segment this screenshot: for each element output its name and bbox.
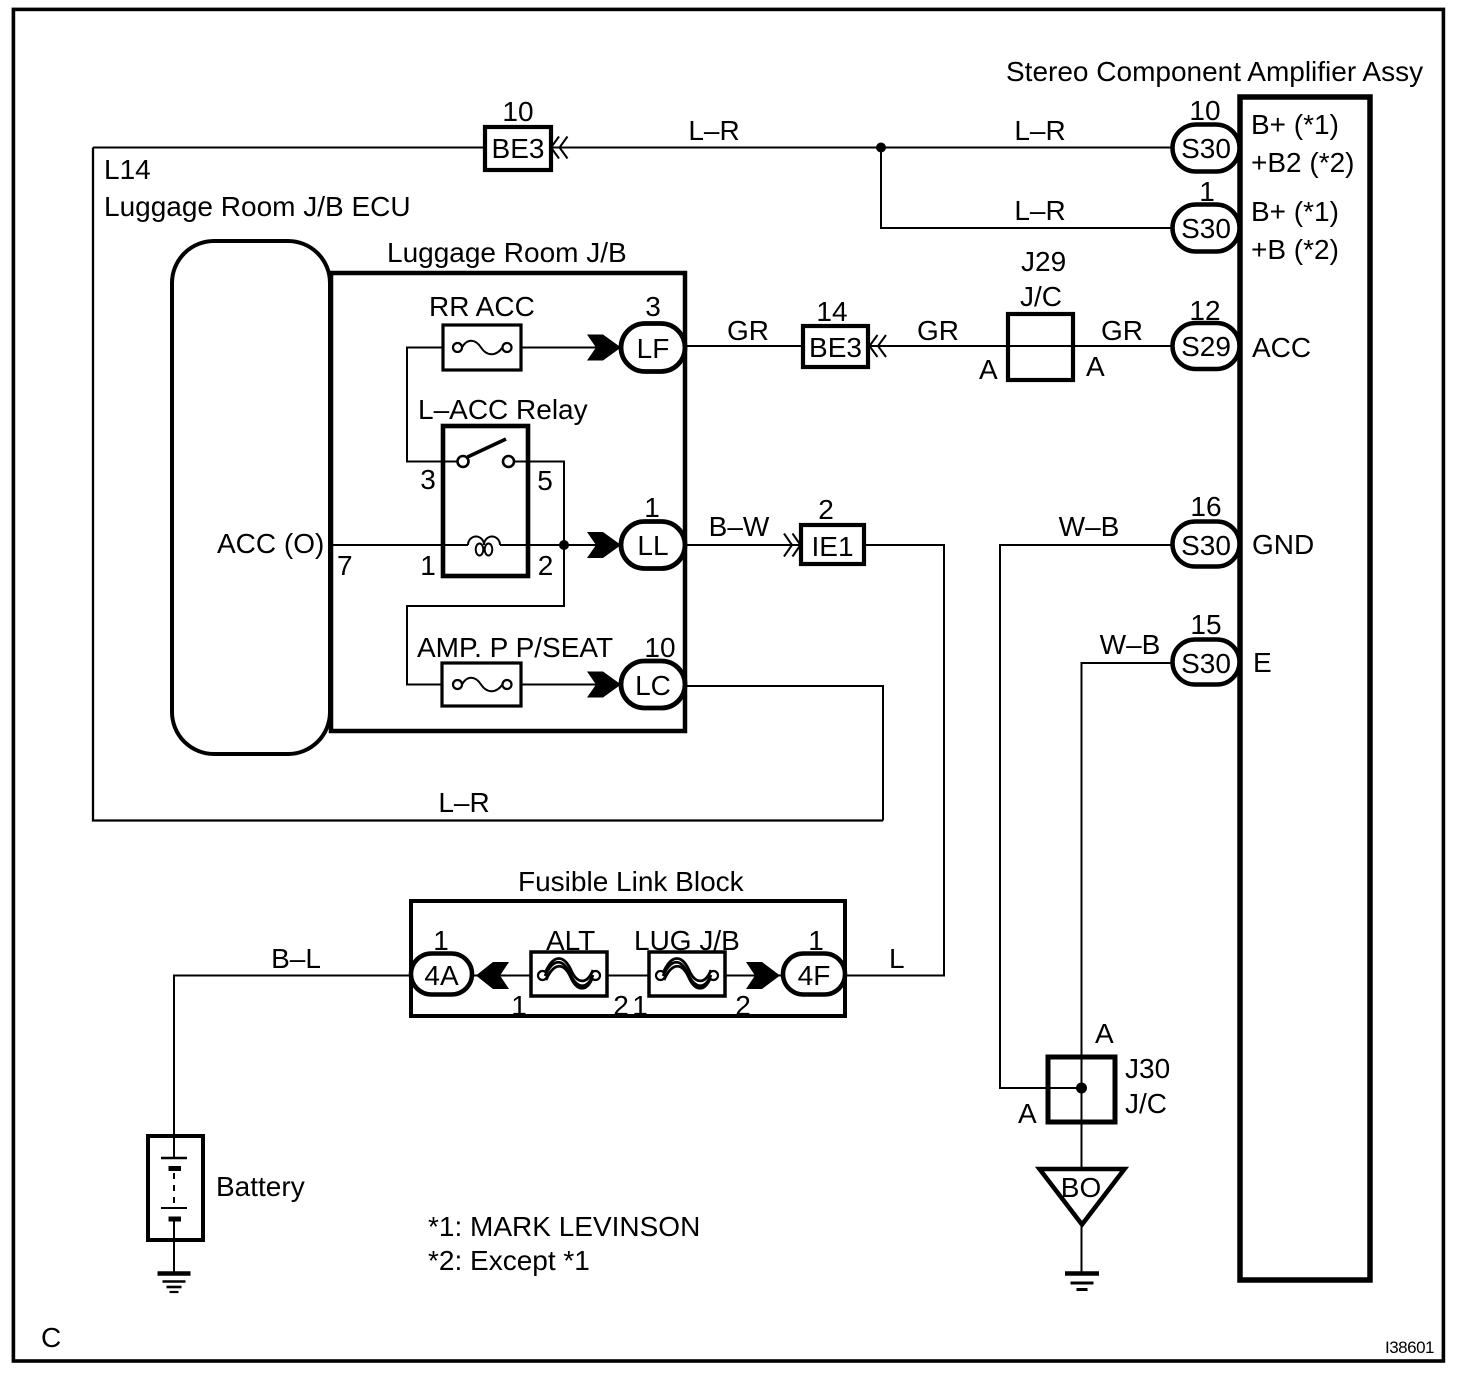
svg-text:1: 1 [1199,176,1215,207]
svg-text:ALT: ALT [546,925,595,956]
svg-text:A: A [1095,1018,1114,1049]
svg-text:B+ (*1): B+ (*1) [1251,196,1339,227]
wire: junction down then right to S30 1 [881,148,1173,229]
wire W-B: S30 16 left and down to J30 [1000,545,1173,1088]
svg-text:15: 15 [1190,609,1221,640]
svg-text:LUG J/B: LUG J/B [634,925,740,956]
wire: LL to IE1 [685,544,801,546]
connector 4A pin 1 [411,954,472,995]
connector 4F pin 1 [783,954,845,995]
wire: RR ACC fuse input drop to relay pin 3 [407,348,458,462]
wire B-L: battery to fusible link block [174,976,411,1137]
wire: RR ACC fuse to LF [521,347,621,349]
svg-text:LC: LC [635,670,671,701]
svg-text:L14: L14 [104,154,151,185]
svg-text:*2: Except *1: *2: Except *1 [428,1245,590,1276]
svg-text:L–R: L–R [1014,195,1065,226]
svg-text:ACC (O): ACC (O) [217,528,324,559]
wire: BO to ground [1081,1224,1083,1272]
junction connector J29 J/C [1008,314,1073,380]
fusible link ALT [531,952,607,996]
ground symbol left [158,1274,191,1293]
fusible link LUG J/B [649,952,725,996]
svg-text:Stereo Component Amplifier Ass: Stereo Component Amplifier Assy [1006,56,1423,87]
svg-text:10: 10 [644,632,675,663]
wire: AMP fuse to LC [521,684,621,686]
svg-text:10: 10 [502,96,533,127]
wire: relay pin 5 down and across to AMP fuse [407,462,564,685]
svg-text:Luggage Room J/B: Luggage Room J/B [387,237,627,268]
svg-text:BE3: BE3 [492,133,545,164]
svg-text:LL: LL [637,530,668,561]
arrow into LC [587,672,621,698]
svg-text:+B2 (*2): +B2 (*2) [1251,147,1355,178]
connector S30 pin 10 [1173,125,1240,172]
svg-text:2: 2 [538,550,554,581]
svg-text:3: 3 [420,464,436,495]
connector IE1 pin 2 [784,525,864,564]
junction connector J30 J/C [1048,1057,1115,1122]
svg-text:B+ (*1): B+ (*1) [1251,109,1339,140]
svg-text:5: 5 [537,465,553,496]
svg-text:1: 1 [433,925,449,956]
svg-text:Battery: Battery [216,1171,305,1202]
svg-text:GR: GR [727,315,769,346]
svg-text:J30: J30 [1125,1053,1170,1084]
svg-text:L–ACC Relay: L–ACC Relay [418,394,588,425]
svg-text:LF: LF [637,333,670,364]
svg-text:Luggage Room J/B ECU: Luggage Room J/B ECU [104,191,411,222]
svg-text:BE3: BE3 [809,332,862,363]
wire: inside fusible link block row [442,975,845,977]
svg-text:W–B: W–B [1100,629,1161,660]
svg-text:A: A [979,354,998,385]
svg-text:3: 3 [645,291,661,322]
svg-text:1: 1 [644,492,660,523]
component box Luggage Room J/B [331,273,685,731]
svg-text:S30: S30 [1181,133,1231,164]
svg-text:7: 7 [337,550,353,581]
svg-text:S29: S29 [1181,331,1231,362]
connector LF pin 3 [621,324,685,372]
component ACC (O) rounded box [172,241,330,754]
svg-text:4A: 4A [424,960,459,991]
wire: relay coil pin 2 to LL [500,544,621,546]
svg-text:S30: S30 [1181,530,1231,561]
node: junction dot on L-R wire [876,143,886,153]
relay L-ACC Relay [443,426,528,576]
svg-text:J29: J29 [1021,246,1066,277]
svg-text:IE1: IE1 [811,531,853,562]
svg-text:RR ACC: RR ACC [429,291,535,322]
wire: J30 to BO ground connector [1081,1122,1083,1169]
svg-text:GND: GND [1252,529,1314,560]
connector S30 pin 1 [1173,205,1240,252]
component box L14 Luggage Room J/B ECU [93,148,883,821]
fuse RR ACC [443,325,521,370]
svg-text:S30: S30 [1181,213,1231,244]
connector S30 pin 15 [1173,640,1240,685]
arrow out of 4A (left pointing) [476,962,509,989]
svg-text:L–R: L–R [688,115,739,146]
svg-text:GR: GR [917,315,959,346]
svg-text:I38601: I38601 [1385,1338,1434,1357]
relay coil [468,537,500,556]
connector LC pin 10 [621,661,685,708]
wire L-R: L14 top edge from (93,147) through BE3 10 to S30 10 [93,147,1173,149]
svg-text:1: 1 [808,925,824,956]
svg-text:1: 1 [420,550,436,581]
svg-text:2: 2 [818,494,834,525]
ground connector BO triangle [1040,1169,1125,1225]
wire GR: LF to S29 through BE3 14 and J29 [685,345,1173,347]
battery [148,1136,203,1272]
arrow into LF [587,335,621,361]
connector S29 pin 12 [1173,323,1240,369]
component: Stereo Component Amplifier Assy box [1240,97,1370,1280]
svg-text:4F: 4F [798,960,831,991]
arrow into LL [587,532,621,558]
svg-text:*1: MARK LEVINSON: *1: MARK LEVINSON [428,1211,700,1242]
svg-text:10: 10 [1189,95,1220,126]
svg-text:S30: S30 [1181,648,1231,679]
svg-text:B–L: B–L [271,943,321,974]
ground symbol right [1065,1274,1099,1290]
svg-text:ACC: ACC [1252,332,1311,363]
svg-text:2: 2 [613,990,629,1021]
svg-text:GR: GR [1101,315,1143,346]
svg-text:E: E [1253,647,1272,678]
svg-text:14: 14 [816,296,847,327]
svg-text:+B (*2): +B (*2) [1251,234,1339,265]
svg-text:1: 1 [511,990,527,1021]
wire: LC right and down to L14 corner [685,686,883,821]
arrow into 4F [746,962,780,989]
node: junction dot in J30 [1076,1083,1087,1094]
node: junction of pin 5 drop with coil output [559,540,569,550]
wire W-B: S30 15 left and down to J30 top [1082,663,1174,1122]
svg-text:Fusible Link Block: Fusible Link Block [518,866,745,897]
svg-text:A: A [1018,1098,1037,1129]
svg-text:1: 1 [632,990,648,1021]
connector BE3 pin 10 [485,127,568,170]
svg-text:16: 16 [1190,491,1221,522]
wire: ACC (O) pin 7 to relay coil [330,544,468,546]
svg-text:J/C: J/C [1020,281,1062,312]
component box Fusible Link Block [411,901,845,1016]
svg-text:BO: BO [1061,1172,1101,1203]
connector S30 pin 16 [1173,522,1240,567]
svg-text:W–B: W–B [1059,511,1120,542]
wire: IE1 right, down to fusible link 4F [845,545,944,976]
connector LL pin 1 [621,522,685,569]
connector BE3 pin 14 [803,326,886,367]
svg-text:L–R: L–R [438,787,489,818]
svg-text:2: 2 [735,990,751,1021]
svg-text:C: C [41,1322,61,1353]
svg-text:12: 12 [1189,295,1220,326]
svg-text:J/C: J/C [1125,1088,1167,1119]
fuse AMP. P P/SEAT [442,663,521,706]
svg-text:L–R: L–R [1014,115,1065,146]
svg-text:L: L [889,943,905,974]
svg-text:B–W: B–W [709,511,770,542]
svg-text:AMP. P P/SEAT: AMP. P P/SEAT [417,632,613,663]
svg-text:A: A [1086,351,1105,382]
